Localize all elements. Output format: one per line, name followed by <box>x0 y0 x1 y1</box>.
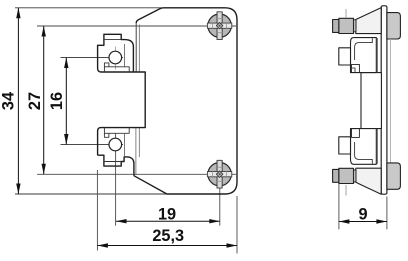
arrow 25,3 right <box>227 243 238 247</box>
side: bottom tab box <box>339 137 351 154</box>
bottom foot inner small box <box>104 133 109 137</box>
top foot hole vertical centerline <box>115 47 117 70</box>
svg-text:19: 19 <box>158 205 176 223</box>
dim line 9 <box>339 221 387 223</box>
svg-text:27: 27 <box>26 92 44 110</box>
arrow 34 top <box>16 8 20 18</box>
extension line (16 bottom) foot hole centerline <box>61 144 124 146</box>
bottom foot inner top line <box>104 128 129 134</box>
front body thin inner edge (upper left) <box>138 25 140 73</box>
arrow 25,3 left <box>97 243 108 247</box>
extension line (16 top) foot hole centerline <box>61 57 124 59</box>
extension line left (19) / hole centerline <box>115 134 117 226</box>
front body left edge below chamfer <box>135 23 137 72</box>
top foot tab inner line <box>104 39 121 41</box>
extension line top (34) <box>15 7 161 9</box>
extension line bottom (34) <box>15 193 167 195</box>
top right screw <box>207 12 231 40</box>
side: hidden edge below bottom screw <box>345 185 347 196</box>
svg-text:25,3: 25,3 <box>152 227 184 245</box>
extension line right (9) <box>386 197 388 230</box>
arrow 27 bottom <box>42 164 46 175</box>
side: bottom screw body <box>339 168 354 183</box>
svg-text:34: 34 <box>0 92 18 110</box>
top foot inner bottom line <box>104 67 129 72</box>
dim line 25,3 <box>97 245 237 247</box>
side: top screw head <box>333 20 339 33</box>
side: bottom bracket right double edge <box>376 129 378 164</box>
dim line 19 <box>116 220 220 222</box>
front body outline: chamfer, top, right, bottom, diagonal <box>134 8 237 194</box>
side: middle body section <box>361 73 381 129</box>
bottom-left S contour (body into bottom foot hook) <box>98 155 134 176</box>
side: hidden edge above top screw <box>345 9 347 18</box>
side: bottom bracket channel <box>355 142 373 164</box>
arrow 9 left <box>339 219 350 223</box>
side: gray block bottom <box>387 163 401 189</box>
arrow 19 left <box>116 219 127 223</box>
bottom foot right inner edge <box>123 133 125 157</box>
side: top bracket box <box>351 38 377 73</box>
extension line top (27) / screw centerline <box>37 25 236 27</box>
extension line right (19) screw centerline <box>219 186 221 226</box>
svg-text:9: 9 <box>358 205 367 223</box>
dim line 34 <box>17 8 19 194</box>
extension line bottom (27) / screw centerline <box>37 173 236 175</box>
side: bottom screw neck <box>354 170 357 182</box>
side: top bracket channel <box>355 38 373 60</box>
top foot right inner edge <box>123 44 125 67</box>
bottom foot hole <box>109 138 122 151</box>
side: tall plate <box>381 6 387 194</box>
extension line left (25,3) <box>96 170 98 251</box>
side: top wedge <box>356 8 381 34</box>
arrow 16 bottom <box>64 134 68 145</box>
side: gray block top hidden edge <box>389 39 391 163</box>
side: top screw neck <box>354 20 357 32</box>
bottom foot tab inner line <box>104 161 121 163</box>
extension line right (25,3) <box>236 196 238 254</box>
bottom right screw <box>207 160 231 188</box>
arrow 16 top <box>64 58 68 69</box>
front body thin inner edges (lower left) <box>135 128 137 175</box>
side: bottom wedge <box>356 168 381 194</box>
arrow 27 top <box>42 26 46 37</box>
top foot hole <box>109 51 122 64</box>
top foot inner small box <box>104 63 109 67</box>
arrow 34 bottom <box>16 184 20 195</box>
side: bottom bracket notch <box>352 129 360 138</box>
arrow 9 right <box>376 219 387 223</box>
arrow 19 right <box>209 219 220 223</box>
side: gray block top <box>387 13 401 39</box>
side: top bracket notch <box>352 64 360 72</box>
dim line 27 <box>43 26 45 174</box>
dim line 16 <box>65 58 67 145</box>
extension line left (9) <box>338 184 340 229</box>
side: top tab box <box>339 48 351 65</box>
side: top screw body <box>339 18 354 33</box>
side: top bracket right double edge <box>376 38 378 73</box>
bottom foot left edge, recess, top foot outline <box>98 34 146 155</box>
side: bottom screw head <box>333 169 339 182</box>
side: bottom bracket box <box>351 129 377 165</box>
svg-text:16: 16 <box>48 92 66 110</box>
